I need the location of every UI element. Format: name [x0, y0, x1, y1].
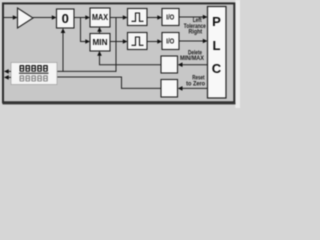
wire MAX to comparator 1 [110, 15, 128, 20]
wire branch to MIN [81, 18, 91, 44]
wire comparator 2 to I/O 2 [147, 39, 162, 44]
svg-text:C: C [212, 61, 222, 76]
svg-text:I/O: I/O [166, 39, 174, 46]
delete button box [161, 56, 178, 73]
reset button box [161, 80, 178, 98]
wire zero block to display bus (arrow up into zero block) [61, 28, 66, 71]
display digits row 1 [20, 65, 48, 72]
comparator 1 (pulse block) [128, 9, 148, 26]
comparator 2 (pulse block) [128, 33, 148, 50]
svg-text:MIN: MIN [93, 37, 108, 47]
MIN memory block [90, 34, 110, 52]
wire display tap from signal bus [57, 18, 116, 72]
MAX memory block [90, 8, 110, 27]
op-amp U1 (amplifier triangle) [18, 8, 34, 28]
wire PLC to reset button [178, 86, 208, 91]
wire PLC to delete button [178, 62, 208, 67]
svg-text:L: L [213, 38, 221, 53]
I/O block 1 [162, 9, 179, 26]
wire reset button to display bus [57, 77, 161, 88]
wire I/O 1 to PLC [179, 15, 208, 20]
svg-text:I/O: I/O [166, 15, 174, 22]
zero-set block "0" [57, 9, 75, 28]
wire I/O 2 to PLC [179, 39, 208, 44]
display digits row 2 [20, 75, 48, 81]
display underline [19, 73, 49, 74]
I/O block 2 [162, 33, 179, 50]
display module [11, 63, 57, 85]
wire delete to MAX (arrow up into MAX bottom) [97, 27, 102, 34]
svg-text:MAX: MAX [92, 12, 108, 22]
display output arrow 1 [4, 69, 11, 74]
svg-text:MIN/MAX: MIN/MAX [180, 55, 205, 62]
wire amplifier to zero block [33, 15, 57, 20]
display output arrow 2 [4, 75, 11, 80]
wire MIN to comparator 2 [110, 39, 128, 44]
wire comparator 1 to I/O 1 [147, 15, 162, 20]
wire zero block to MAX [74, 15, 90, 20]
wire delete button to MIN (arrow up into MIN bottom) [97, 51, 161, 65]
svg-text:P: P [212, 14, 221, 29]
svg-text:0: 0 [62, 11, 69, 26]
svg-text:to Zero: to Zero [186, 81, 205, 88]
PLC block [208, 7, 227, 99]
wire input [4, 15, 18, 20]
svg-text:Right: Right [189, 29, 203, 36]
